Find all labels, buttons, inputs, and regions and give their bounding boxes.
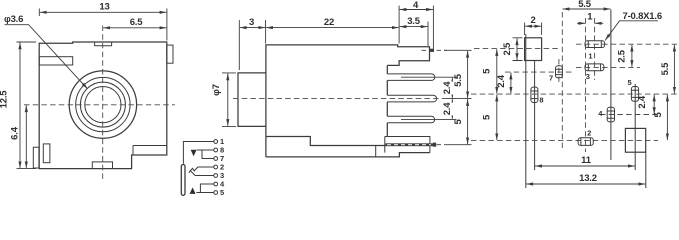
schematic pin 4 wire <box>200 184 213 192</box>
svg-text:13: 13 <box>99 2 109 13</box>
svg-text:2.4: 2.4 <box>442 102 453 116</box>
dimension 3.5 <box>400 16 428 46</box>
side view body bottom edge <box>266 137 386 146</box>
jack opening circle 2 <box>76 77 130 131</box>
side view base plate <box>266 153 430 157</box>
side view pin B <box>387 95 436 102</box>
pad 7 <box>556 66 563 78</box>
dimension 2.5 right footprint <box>617 45 632 67</box>
shield mount pad <box>625 128 645 152</box>
footprint extension line through pad 8 <box>534 61 536 171</box>
dimension 13.2 <box>526 173 645 184</box>
svg-text:3.5: 3.5 <box>407 16 421 27</box>
schematic pin 2 wire with spring contact <box>191 167 214 171</box>
pad 1 <box>585 41 605 48</box>
schematic pin 7 wire <box>202 150 214 158</box>
schematic pin 5 wire <box>196 192 213 194</box>
schematic pin 3 wire with lever contact <box>189 171 214 176</box>
dimension 12.5 <box>0 42 36 169</box>
side view bottom pin white dashes <box>387 144 431 146</box>
schematic jack sleeve bar <box>181 165 185 196</box>
label phi 3.6 with leader <box>4 14 88 89</box>
front view bottom-left leg B <box>43 144 50 163</box>
schematic pin 1 wire <box>183 142 213 164</box>
side view bottom block <box>385 137 430 153</box>
footprint dashed line through pad 7 <box>558 59 560 84</box>
dimension 6.4 <box>10 105 27 168</box>
front view top notch <box>95 42 112 46</box>
svg-text:5.5: 5.5 <box>453 73 464 87</box>
dimension 2.4 right footprint <box>637 95 654 114</box>
pad 4 <box>607 107 614 122</box>
front view body outline <box>39 42 167 169</box>
svg-text:13.2: 13.2 <box>579 173 597 184</box>
svg-text:1: 1 <box>588 51 592 60</box>
dimension 2.5 left footprint <box>502 38 523 61</box>
svg-text:2.4: 2.4 <box>496 74 507 88</box>
svg-text:5: 5 <box>481 68 492 74</box>
footprint extension line through pad 4 <box>610 10 612 161</box>
svg-text:5.5: 5.5 <box>578 0 592 10</box>
svg-text:7: 7 <box>549 74 553 83</box>
svg-text:2.4: 2.4 <box>637 95 648 109</box>
jack opening circle inner <box>85 87 121 123</box>
front view left step slot <box>39 57 72 65</box>
schematic pin 3 terminal <box>214 174 218 178</box>
svg-text:φ7: φ7 <box>211 84 222 96</box>
dimension 5.5 top footprint <box>563 0 611 10</box>
front view horizontal centerline <box>24 104 175 106</box>
side view contact plate edge <box>386 65 388 136</box>
svg-text:5: 5 <box>481 114 492 120</box>
side view bottom pin tip <box>433 143 436 147</box>
footprint row line through pad 2 mount <box>474 48 560 50</box>
svg-text:6.5: 6.5 <box>130 17 144 28</box>
svg-text:3: 3 <box>249 17 254 28</box>
footprint left extension line from pad 2 mount <box>525 34 527 188</box>
dimension 22 <box>266 6 399 44</box>
dimension phi 7 <box>211 73 236 127</box>
svg-text:3: 3 <box>586 72 590 81</box>
dimension 13 <box>39 2 167 41</box>
dimension 2.4 left footprint <box>496 73 511 94</box>
svg-text:22: 22 <box>324 17 334 28</box>
dimension 5 upper left footprint <box>481 49 497 94</box>
side view barrel <box>238 73 266 127</box>
dimension 1 top footprint <box>577 12 603 24</box>
svg-text:6.4: 6.4 <box>10 126 21 140</box>
schematic pin 2 terminal <box>214 165 218 169</box>
pad 2 bottom <box>578 138 593 146</box>
footprint row line through pad 3 <box>576 66 640 68</box>
footprint row line through pad 2 and shield pad <box>471 140 658 142</box>
side view horizontal centerline <box>233 98 447 100</box>
schematic pin 8 wire <box>197 149 214 151</box>
schematic switch contact triangle at pin 5 <box>190 187 196 194</box>
dimension 5.5 right footprint <box>660 45 674 94</box>
front view right side tab <box>167 45 173 63</box>
footprint row line through pad 7 <box>505 71 572 73</box>
side view right dimension extension ticks <box>401 50 472 144</box>
side view bottom pin centerline <box>437 144 448 146</box>
dimension 2.4 upper right of side view <box>442 78 455 98</box>
side view top pin centerline <box>422 49 448 51</box>
svg-text:5: 5 <box>628 78 632 87</box>
side view top pin <box>430 49 435 52</box>
jack opening circle outer <box>69 71 136 138</box>
pad 5 <box>631 87 638 102</box>
footprint row line through pad 1 <box>576 43 678 45</box>
dimension 5.5 right of side view <box>453 51 468 98</box>
svg-text:8: 8 <box>539 96 543 105</box>
svg-text:2.5: 2.5 <box>502 42 513 56</box>
footprint extension line through pad 5 and shield pad <box>634 84 636 170</box>
svg-text:2.5: 2.5 <box>617 49 628 63</box>
side view bottom pin bar <box>386 143 434 146</box>
schematic pin 5 terminal <box>214 191 218 195</box>
side view pin C <box>387 116 434 123</box>
dimension 5 lower left footprint <box>481 95 497 141</box>
footprint row line through pad 4 <box>600 114 658 116</box>
svg-text:5.5: 5.5 <box>660 62 671 76</box>
front view bottom-right step ledge <box>133 146 167 156</box>
pad 3 <box>585 64 604 71</box>
schematic switch contact triangle at pin 8 <box>191 150 197 156</box>
pad 2 mount square <box>525 38 542 61</box>
front view vertical centerline <box>102 26 104 180</box>
svg-text:7-0.8X1.6: 7-0.8X1.6 <box>623 11 662 22</box>
side view body outline <box>266 45 430 157</box>
footprint extension line at shield pad right edge <box>645 152 647 188</box>
svg-text:11: 11 <box>581 155 592 166</box>
dimension 5 right footprint <box>653 95 668 141</box>
svg-text:2.4: 2.4 <box>442 81 453 95</box>
schematic pin 4 terminal <box>214 182 218 186</box>
front view bottom-left leg A <box>33 147 39 168</box>
dimension 2 footprint <box>525 15 542 35</box>
dimension 4 <box>400 0 434 52</box>
svg-text:2: 2 <box>530 15 535 26</box>
dimension 5 right of side view <box>453 99 468 144</box>
side view pin A <box>387 74 435 81</box>
svg-text:5: 5 <box>220 188 224 197</box>
svg-text:φ3.6: φ3.6 <box>4 14 23 25</box>
schematic pin 1 terminal <box>214 140 218 144</box>
svg-text:1: 1 <box>587 12 593 23</box>
schematic pin 8 terminal <box>214 148 218 152</box>
front view bottom-center tab <box>92 162 112 169</box>
footprint vertical centerline <box>561 12 563 150</box>
footprint row line through pads 8 and 5 <box>471 93 678 95</box>
dimension 11 <box>535 155 635 166</box>
schematic pin 7 terminal <box>214 157 218 161</box>
label 7-0.8X1.6 with leader <box>605 11 662 40</box>
side view base plate inner line <box>375 146 377 157</box>
jack opening circle 3 <box>80 82 125 127</box>
footprint dashed line through pad 2 column <box>585 18 587 152</box>
pad 8 <box>531 87 538 102</box>
svg-text:2: 2 <box>587 128 591 137</box>
dimension 6.5 <box>103 17 166 28</box>
footprint dashed line through pads 1 and 3 <box>594 18 596 80</box>
dimension 2.4 lower right of side view <box>442 99 455 119</box>
svg-text:12.5: 12.5 <box>0 90 10 109</box>
dimension 3 <box>239 17 265 70</box>
